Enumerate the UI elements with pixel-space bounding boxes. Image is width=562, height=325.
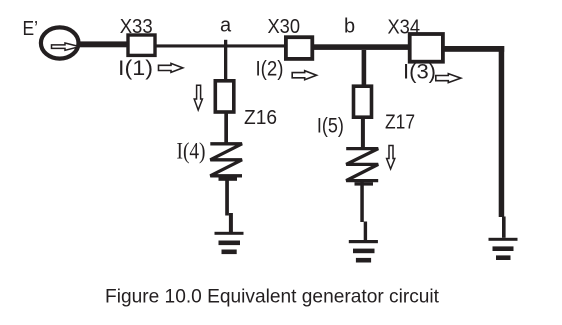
- svg-text:I(2): I(2): [256, 57, 284, 80]
- svg-text:Figure 10.0 Equivalent generat: Figure 10.0 Equivalent generator circuit: [105, 285, 440, 307]
- svg-text:E’: E’: [23, 18, 39, 40]
- svg-text:I(4): I(4): [177, 139, 206, 164]
- svg-text:I(3): I(3): [403, 61, 436, 84]
- svg-text:a: a: [220, 14, 232, 36]
- svg-text:b: b: [344, 16, 355, 38]
- svg-text:Z17: Z17: [385, 112, 415, 134]
- svg-text:I(5): I(5): [317, 115, 344, 138]
- svg-text:I(1): I(1): [118, 57, 153, 80]
- svg-text:Z16: Z16: [244, 107, 277, 129]
- svg-text:X34: X34: [388, 17, 421, 39]
- svg-text:X33: X33: [120, 16, 153, 38]
- svg-text:X30: X30: [268, 16, 301, 38]
